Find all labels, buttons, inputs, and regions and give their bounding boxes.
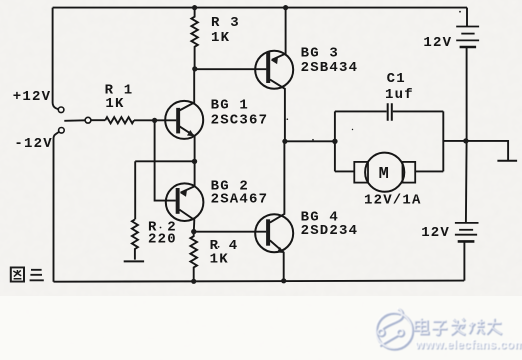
svg-text:1K: 1K [211, 30, 230, 46]
motor box top with C1 gap [335, 110, 443, 112]
wire node B down to R2 [134, 161, 136, 219]
watermark logo diagonal trace shadow [380, 336, 399, 347]
watermark logo left pad highlight [378, 329, 384, 335]
svg-text:2SC367: 2SC367 [211, 113, 269, 129]
watermark logo trace curve shadow [383, 309, 404, 330]
+12V terminal circle [58, 107, 64, 113]
svg-text:2SD234: 2SD234 [301, 223, 359, 239]
ink speck [352, 129, 353, 130]
motor box right side [442, 111, 444, 171]
wire BG2 collector junction to BG4 base [194, 231, 266, 233]
wire BG3/BG4 node to motor box [285, 140, 335, 142]
svg-text:220: 220 [148, 232, 177, 248]
wire to right ground [466, 141, 508, 160]
wire right rail top [466, 8, 468, 27]
watermark logo circle shadow [377, 313, 413, 349]
junction dot BG4 emitter rail [281, 278, 286, 283]
junction dot R4 bottom rail [191, 279, 196, 284]
BG1 emitter arrow [187, 130, 195, 136]
switch pole circle [85, 117, 91, 123]
junction dot top BG3 [283, 5, 288, 10]
switch arm SW [64, 119, 85, 122]
junction dot motor box right rail [463, 138, 468, 143]
caption 图三 (figure 3) drawn glyphs [11, 267, 44, 281]
resistor R4 1K zigzag [190, 232, 197, 282]
wire left rail lower [54, 132, 59, 282]
svg-text:-12V: -12V [14, 136, 52, 152]
wire node B horizontal [135, 160, 194, 162]
BG4 collector diagonal and wire up [270, 141, 285, 222]
watermark logo circle highlight [376, 312, 412, 348]
BG1 collector diagonal and wire up [179, 69, 194, 111]
svg-text:2SA467: 2SA467 [211, 192, 269, 208]
glyph 三 [30, 270, 44, 281]
motor left brush bracket [354, 162, 368, 183]
wire right rail bottom [463, 241, 465, 280]
BG3 collector diagonal and wire down [270, 80, 285, 142]
transistor BG1 circle [165, 101, 203, 139]
BG1 emitter diagonal and wire down [179, 126, 194, 186]
svg-text:www.elecfans.com: www.elecfans.com [414, 337, 522, 351]
BG1 base bar [176, 108, 180, 133]
wire pole to R1 [91, 119, 105, 121]
junction dot node B [192, 159, 197, 164]
wire top rail [53, 7, 467, 9]
BG2 emitter diagonal from node B [181, 186, 195, 192]
battery B1 12V plates [456, 26, 479, 28]
svg-text:R 3: R 3 [211, 15, 240, 31]
svg-text:1K: 1K [105, 96, 124, 112]
wire motor box to right rail [443, 140, 466, 142]
BG4 base bar [266, 219, 270, 245]
motor right brush bracket [403, 162, 416, 183]
junction dot BG3/BG4 collectors [282, 139, 287, 144]
svg-text:1K: 1K [210, 252, 229, 268]
resistor R3 1K zigzag [191, 8, 197, 69]
svg-text:M: M [379, 165, 389, 184]
svg-text:12V/1A: 12V/1A [364, 192, 422, 208]
wire R3 junction to BG3 base [195, 68, 267, 70]
BG4 emitter diagonal and wire down [270, 240, 284, 280]
motor box left side [334, 111, 336, 171]
watermark logo and text [376, 308, 522, 352]
svg-text:12V: 12V [421, 225, 450, 241]
watermark logo left pad shadow [379, 330, 385, 336]
BG3 emitter wire from top rail [272, 8, 286, 60]
BG2 collector diagonal down [179, 210, 194, 232]
svg-text:2SB434: 2SB434 [301, 60, 359, 76]
svg-text:+12V: +12V [13, 89, 51, 105]
BG3 emitter arrow [271, 58, 278, 64]
wire R1 to BG1 base [134, 119, 176, 121]
svg-text:1uf: 1uf [385, 87, 414, 103]
ink speck [287, 118, 289, 120]
ink speck R4 label dot [218, 246, 220, 248]
watermark brand characters [416, 319, 503, 336]
BG3 base bar [266, 52, 270, 83]
ink speck [459, 11, 461, 13]
resistor R2 220 zigzag [132, 219, 138, 259]
motor M circle [365, 153, 404, 192]
wire right rail middle [465, 47, 468, 223]
motor box bottom right segment [415, 170, 443, 172]
svg-text:C1: C1 [387, 71, 406, 87]
wire junction A down to BG2 base [155, 120, 176, 200]
ink speck R2 label dot [160, 227, 162, 229]
wire left rail upper [53, 8, 59, 110]
glyph 图 [11, 267, 24, 281]
junction dot BG2 collector/R4 [191, 229, 196, 234]
transistor BG3 circle [255, 51, 293, 89]
ink speck [312, 139, 314, 141]
BG2 base bar [176, 188, 180, 214]
ground bar under R2 [124, 260, 144, 262]
watermark logo trace curve highlight [382, 308, 403, 329]
watermark logo right pad highlight [397, 329, 403, 335]
motor box bottom left segment [335, 170, 354, 172]
ground bar right [497, 160, 517, 162]
junction dot R3/BG3 base [192, 66, 197, 71]
resistor R1 1K zigzag [105, 117, 134, 123]
wire bottom rail [54, 281, 465, 282]
BG4 emitter arrow [277, 247, 284, 253]
svg-text:12V: 12V [423, 35, 452, 51]
battery B2 12V plates [455, 222, 479, 224]
transistor BG2 circle [166, 183, 204, 221]
capacitor C1 plates [388, 103, 392, 121]
BG2 emitter arrow [180, 191, 187, 197]
junction dot R1/BG1 base [152, 118, 157, 123]
transistor BG4 circle [255, 214, 293, 252]
-12V terminal circle [59, 128, 65, 134]
svg-text:BG 1: BG 1 [211, 98, 249, 114]
watermark logo diagonal trace highlight [379, 334, 398, 345]
junction dot motor box left [332, 139, 337, 144]
watermark brand characters highlight [415, 318, 502, 335]
junction dot top R3 [192, 5, 197, 10]
watermark logo right pad shadow [398, 330, 404, 336]
